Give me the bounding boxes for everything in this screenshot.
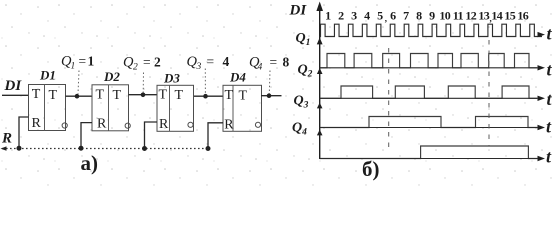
node R-D1 junction bbox=[17, 146, 22, 151]
node Q4 junction dot bbox=[267, 93, 272, 98]
svg-text:14: 14 bbox=[491, 9, 502, 23]
wire R stub to D2 bbox=[81, 123, 92, 149]
axis arrow Q2 bbox=[317, 68, 323, 74]
leader Q2 dotted bbox=[142, 73, 144, 93]
svg-text:R: R bbox=[159, 117, 169, 132]
svg-text:13: 13 bbox=[478, 9, 489, 23]
node Q2 junction dot bbox=[141, 93, 146, 98]
svg-text:D1: D1 bbox=[39, 68, 56, 83]
svg-text:7: 7 bbox=[403, 9, 409, 23]
axis vertical common bbox=[319, 6, 321, 159]
axis DI t-arrow bbox=[538, 32, 546, 37]
svg-text:2: 2 bbox=[338, 9, 344, 23]
svg-text:15: 15 bbox=[504, 9, 515, 23]
baseline Q1 bbox=[320, 67, 537, 69]
axis Q3 t-arrow bbox=[538, 125, 546, 130]
axis arrow Q1 bbox=[317, 38, 323, 45]
R rail left arrow bbox=[1, 146, 7, 150]
axis arrow Q3 bbox=[317, 103, 323, 109]
svg-text:4: 4 bbox=[364, 9, 370, 23]
wire DI input to D1.T bbox=[2, 94, 29, 96]
svg-text:R: R bbox=[97, 116, 107, 131]
axis arrow top (DI) bbox=[316, 2, 323, 12]
svg-text:T: T bbox=[175, 88, 184, 103]
waveform Q3 bbox=[320, 117, 542, 128]
svg-text:T: T bbox=[239, 89, 248, 104]
baseline Q3 bbox=[320, 127, 537, 129]
node Q1 junction dot bbox=[75, 94, 80, 99]
gridline dashed 2 bbox=[488, 40, 490, 146]
node R-D3 junction bbox=[142, 146, 147, 151]
baseline Q4 bbox=[320, 158, 537, 160]
waveform Q4 bbox=[320, 146, 542, 159]
svg-text:T: T bbox=[49, 88, 58, 103]
svg-text:б): б) bbox=[362, 157, 380, 181]
svg-text:D4: D4 bbox=[229, 70, 246, 85]
svg-text:T: T bbox=[225, 88, 234, 103]
wire Q3: D3 out to D4.T bbox=[194, 95, 223, 97]
svg-text:6: 6 bbox=[390, 9, 396, 23]
axis Q4 t-arrow bbox=[538, 156, 546, 161]
wire R rail (dotted) bbox=[2, 148, 209, 150]
svg-text:T: T bbox=[113, 88, 122, 103]
svg-text:T: T bbox=[32, 87, 41, 102]
waveform Q2 bbox=[320, 86, 542, 98]
svg-text:5: 5 bbox=[377, 9, 383, 23]
leader Q3 dotted bbox=[204, 69, 206, 95]
svg-text:3: 3 bbox=[351, 9, 357, 23]
svg-text:T: T bbox=[159, 88, 168, 103]
axis Q1 t-arrow bbox=[538, 65, 546, 70]
node Q3 junction dot bbox=[203, 94, 208, 99]
waveform DI (16 pulses) bbox=[320, 24, 542, 36]
leader Q1 dotted bbox=[78, 71, 79, 95]
wire Q1: D1 out to D2.T bbox=[66, 95, 93, 97]
wire Q2: D2 out to D3.T bbox=[129, 94, 158, 96]
pulse numbers 1..16 bbox=[325, 9, 529, 24]
svg-text:9: 9 bbox=[429, 9, 435, 23]
flip-flop D3 bbox=[157, 85, 194, 132]
baseline Q2 bbox=[320, 97, 537, 99]
svg-text:DI: DI bbox=[4, 78, 23, 94]
flip-flop D4 bbox=[223, 85, 262, 132]
svg-text:10: 10 bbox=[439, 9, 450, 23]
svg-text:16: 16 bbox=[517, 9, 528, 23]
svg-text:R: R bbox=[224, 118, 234, 133]
svg-text:DI: DI bbox=[289, 3, 308, 19]
wire R stub to D3 bbox=[145, 122, 158, 149]
wire R stub to D4 bbox=[208, 123, 223, 149]
waveform Q1 bbox=[320, 54, 542, 68]
svg-text:12: 12 bbox=[465, 9, 476, 23]
axis Q2 t-arrow bbox=[538, 96, 546, 101]
flip-flop D2 bbox=[92, 85, 130, 132]
svg-text:R: R bbox=[1, 131, 12, 147]
svg-text:D2: D2 bbox=[103, 69, 120, 84]
svg-text:8: 8 bbox=[416, 9, 422, 23]
wire R stub to D1 bbox=[19, 117, 29, 149]
svg-text:а): а) bbox=[81, 151, 99, 175]
svg-text:R: R bbox=[32, 116, 42, 131]
axis arrow Q4 bbox=[317, 130, 323, 136]
node R-D2 junction bbox=[79, 146, 84, 151]
wire Q4 output bbox=[261, 95, 282, 97]
svg-text:T: T bbox=[96, 87, 105, 102]
gridline dashed 1 bbox=[388, 48, 390, 153]
flip-flop D1 bbox=[29, 85, 68, 132]
svg-text:11: 11 bbox=[453, 9, 464, 23]
node R-D4 junction bbox=[206, 146, 211, 151]
leader Q4 dotted bbox=[268, 71, 271, 94]
svg-text:D3: D3 bbox=[163, 71, 180, 86]
svg-text:1: 1 bbox=[325, 9, 331, 23]
